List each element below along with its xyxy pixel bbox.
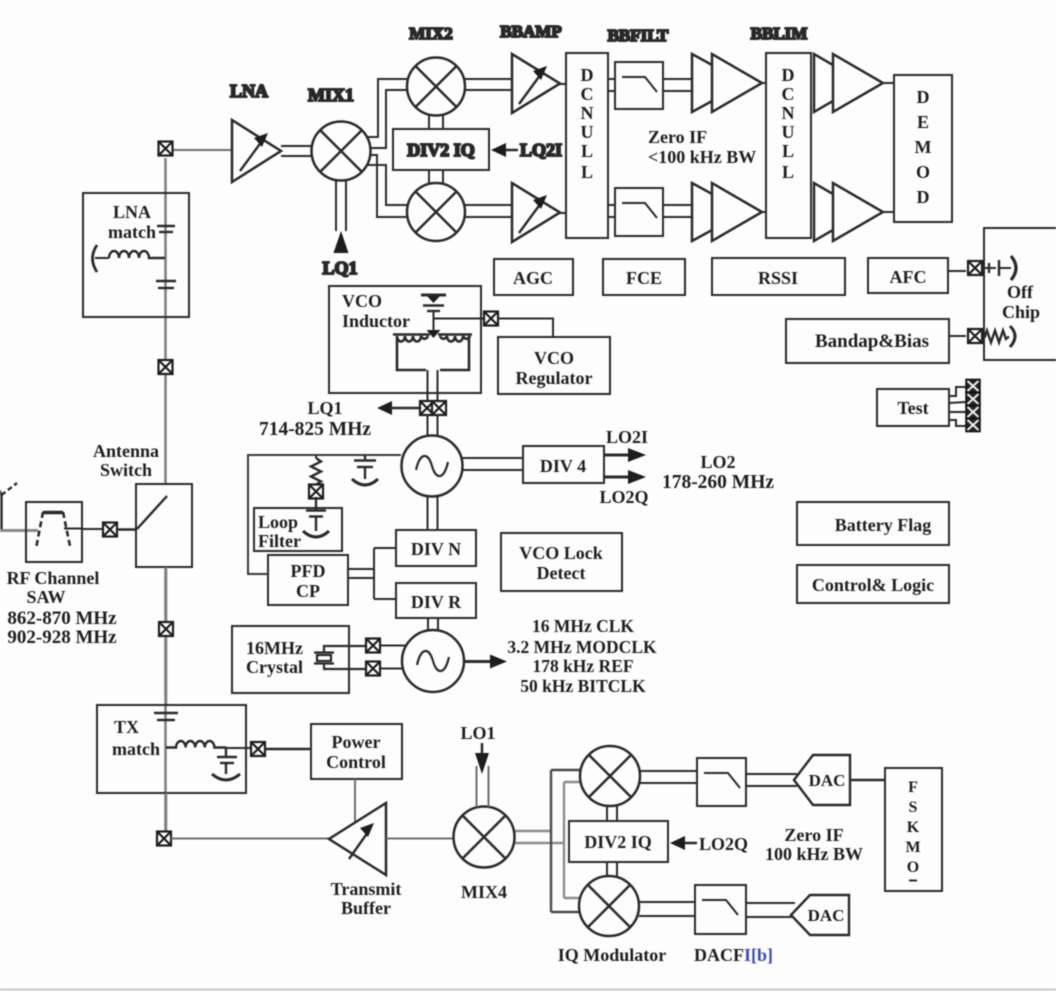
svg-text:match: match xyxy=(112,739,160,759)
wire SAW to pad xyxy=(82,528,103,530)
wire MIX2 to DIV2IQ xyxy=(429,115,443,129)
filter BBFILT I xyxy=(615,62,663,109)
svg-text:MIX4: MIX4 xyxy=(461,882,507,902)
pad LNA match bottom xyxy=(159,360,173,374)
svg-text:Test: Test xyxy=(897,398,928,418)
svg-text:S: S xyxy=(909,799,918,816)
svg-text:Off: Off xyxy=(1007,282,1034,302)
mixer IQmod Q xyxy=(579,876,639,936)
svg-text:K: K xyxy=(907,819,920,836)
wire DIV2IQ2 to IQmixerQ xyxy=(607,862,617,877)
pad Test3 xyxy=(966,405,980,418)
svg-text:Battery Flag: Battery Flag xyxy=(835,515,931,535)
svg-text:AGC: AGC xyxy=(513,268,553,288)
resistor off-chip (Bandgap) xyxy=(982,326,1015,347)
svg-text:O: O xyxy=(907,859,919,876)
block DIV 4 xyxy=(523,446,604,483)
switch lever xyxy=(137,496,167,529)
wire BBAMP to DCNULL xyxy=(560,83,566,85)
block VCO Regulator xyxy=(498,337,610,394)
svg-text:U: U xyxy=(782,122,795,142)
mixer MIX2 xyxy=(407,58,465,116)
wire into IQ mixer bottom xyxy=(551,898,581,912)
amplifier LNA xyxy=(232,120,281,182)
wire limiter to BBLIM I xyxy=(762,82,766,84)
label Transmit Buffer xyxy=(331,879,402,918)
svg-text:862-870 MHz: 862-870 MHz xyxy=(7,608,117,629)
wire MIX2 to BBAMP xyxy=(464,79,512,90)
filter BBFILT Q xyxy=(615,188,663,236)
block Antenna Switch xyxy=(136,484,192,567)
svg-text:LQ1: LQ1 xyxy=(307,398,342,418)
pad RX input xyxy=(159,142,173,156)
svg-text:N: N xyxy=(782,103,795,123)
block RF Channel SAW xyxy=(26,502,82,562)
block DIV R xyxy=(396,583,476,618)
svg-text:D: D xyxy=(581,65,594,85)
wire AFC to pad xyxy=(948,270,966,272)
svg-text:Switch: Switch xyxy=(100,460,152,480)
label LO2 178-260 MHz xyxy=(662,452,774,493)
arrow LQ1 out xyxy=(377,401,420,415)
wire buffer to MIX4 xyxy=(386,838,454,840)
svg-text:N: N xyxy=(581,103,594,123)
svg-text:BBAMP: BBAMP xyxy=(500,22,561,41)
pad AFC xyxy=(968,261,982,275)
svg-text:MIX2: MIX2 xyxy=(409,24,452,43)
svg-text:DIV2 IQ: DIV2 IQ xyxy=(584,832,652,852)
svg-text:<100 kHz BW: <100 kHz BW xyxy=(648,147,756,167)
wire limiter2 to DEMOD Q xyxy=(883,211,894,213)
svg-text:RF Channel: RF Channel xyxy=(7,568,100,588)
DAC Q xyxy=(791,895,849,935)
block Battery Flag xyxy=(797,502,949,545)
label Zero IF TX xyxy=(765,825,863,864)
capacitor TX match top xyxy=(154,713,178,720)
pad Bandgap xyxy=(968,329,982,343)
wire IQmixerQ to DACFIL Q xyxy=(639,902,695,916)
pad VCO B xyxy=(432,401,446,415)
block LNA match xyxy=(83,193,189,317)
svg-text:BBLIM: BBLIM xyxy=(751,24,808,43)
svg-text:LQ2I: LQ2I xyxy=(520,140,562,160)
svg-text:50 kHz BITCLK: 50 kHz BITCLK xyxy=(520,676,646,696)
wire Power Control to buffer xyxy=(354,779,356,822)
capacitor VCO top with arrow xyxy=(421,295,446,330)
mixer MIX1 xyxy=(312,122,371,181)
svg-text:L: L xyxy=(782,141,794,161)
svg-text:Transmit: Transmit xyxy=(331,879,402,899)
label Zero IF RX xyxy=(648,127,756,167)
svg-text:D: D xyxy=(917,87,930,107)
svg-text:16 MHz CLK: 16 MHz CLK xyxy=(532,616,634,636)
svg-text:Power: Power xyxy=(332,732,381,752)
pad loop filter xyxy=(309,485,323,499)
mixer IQmod I xyxy=(580,746,640,806)
inductor VCO differential coil xyxy=(393,335,472,371)
svg-text:L: L xyxy=(782,162,794,182)
svg-text:U: U xyxy=(581,122,594,142)
block BBLIM DCNULL xyxy=(766,53,811,238)
ground loop filter xyxy=(303,531,329,537)
pad Test2 xyxy=(966,392,980,405)
svg-text:IQ Modulator: IQ Modulator xyxy=(558,945,667,965)
wire BBFILT to limiter Q xyxy=(663,205,694,217)
wire pad to transmit buffer xyxy=(171,838,330,840)
svg-text:Regulator: Regulator xyxy=(516,368,593,388)
block RSSI xyxy=(712,258,845,295)
wire pads to xtal osc xyxy=(380,646,407,669)
svg-text:LO2: LO2 xyxy=(700,452,735,472)
wire pad to antenna switch xyxy=(117,528,137,531)
block Test xyxy=(877,389,949,426)
pad Test4 xyxy=(966,418,980,431)
capacitor LNA match bottom xyxy=(156,281,176,288)
pad xtal 2 xyxy=(366,662,380,676)
wire switch to TX pad xyxy=(165,567,168,705)
wire LO1 lines xyxy=(477,766,489,807)
wire into IQ mixer top xyxy=(551,770,582,782)
svg-text:Buffer: Buffer xyxy=(341,898,391,918)
wire filter to DAC I xyxy=(746,774,797,786)
block Control&Logic xyxy=(797,565,949,603)
capacitor LNA match top xyxy=(157,226,175,232)
wire DIV2IQ to MIX3 xyxy=(429,170,443,184)
pad VCO A xyxy=(420,401,434,415)
block DIV N xyxy=(396,530,476,566)
svg-text:L: L xyxy=(581,162,593,182)
svg-text:Zero IF: Zero IF xyxy=(648,127,707,147)
svg-text:F: F xyxy=(908,779,918,796)
capacitor loop filter internal xyxy=(306,497,326,531)
svg-text:Detect: Detect xyxy=(537,563,586,583)
arrow LQ2I into DIV2IQ xyxy=(491,143,518,157)
limiter amp I2 (double triangle) xyxy=(814,54,883,112)
pad mid TX line xyxy=(159,622,173,636)
svg-text:FCE: FCE xyxy=(626,268,662,288)
wire DCNULL to BBFILT Q xyxy=(608,205,615,217)
wire TX match to pad xyxy=(226,747,251,749)
svg-text:C: C xyxy=(581,84,594,104)
wire IQmixerI to DACFIL I xyxy=(640,771,697,783)
inductor LNA match xyxy=(109,251,165,258)
block DIV2 IQ TX xyxy=(569,821,668,862)
wire filter to DAC Q xyxy=(746,903,795,917)
pad TX match out xyxy=(251,742,265,756)
block DIV2 IQ xyxy=(393,129,489,170)
pad antenna port xyxy=(103,523,117,537)
limiter amp I (double triangle) xyxy=(692,54,762,112)
amplifier BBAMP I xyxy=(512,54,560,113)
svg-text:D: D xyxy=(782,65,795,85)
svg-text:DACFI[b]: DACFI[b] xyxy=(694,945,773,965)
svg-text:LNA: LNA xyxy=(230,81,268,101)
arrow xtal clocks out xyxy=(464,655,507,669)
svg-text:Crystal: Crystal xyxy=(246,657,303,677)
svg-text:Control: Control xyxy=(326,752,386,772)
svg-text:DAC: DAC xyxy=(808,906,845,925)
wire MIX1 LO input lines xyxy=(336,179,346,231)
svg-text:902-928 MHz: 902-928 MHz xyxy=(7,627,117,648)
svg-text:Filter: Filter xyxy=(258,531,301,551)
amplifier Transmit Buffer xyxy=(329,803,386,875)
wire TX line to bottom pad xyxy=(165,793,168,831)
svg-text:LO2I: LO2I xyxy=(606,427,648,447)
pad xtal 1 xyxy=(366,639,380,653)
capacitor LNA match series (left) xyxy=(93,245,110,272)
inductor TX match xyxy=(166,741,226,747)
svg-text:TX: TX xyxy=(114,717,139,737)
wire VCO top to regulator pad xyxy=(434,318,498,320)
oscillator VCO xyxy=(402,436,463,497)
block FCE xyxy=(603,259,685,295)
svg-text:LO1: LO1 xyxy=(460,723,495,743)
label RF Channel SAW freqs xyxy=(7,568,118,648)
svg-text:DIV R: DIV R xyxy=(411,592,462,612)
mixer MIX3 lower xyxy=(407,183,465,241)
limiter amp Q (double triangle) xyxy=(692,183,762,241)
filter DACFIL Q xyxy=(695,885,746,934)
wire IQ net vertical A xyxy=(550,770,552,912)
wire BBFILT to limiter I xyxy=(663,79,694,91)
wire Test pad 1 xyxy=(949,387,966,396)
svg-text:Control& Logic: Control& Logic xyxy=(812,575,934,595)
label LQ1 714-825 MHz xyxy=(259,398,371,440)
svg-text:Zero IF: Zero IF xyxy=(784,825,843,845)
wire Test pad 3 xyxy=(949,411,966,413)
wire VCO to DIVN net xyxy=(428,496,438,530)
arrow LO2I xyxy=(604,448,646,462)
limiter amp Q2 (double triangle) xyxy=(814,183,883,241)
svg-text:LNA: LNA xyxy=(113,202,151,222)
DAC I xyxy=(794,755,850,805)
capacitor TX match shunt xyxy=(217,748,237,774)
svg-text:PFD: PFD xyxy=(291,561,326,581)
wire DAC to FSKMOD xyxy=(850,779,885,782)
bandpass symbol SAW xyxy=(37,512,83,546)
wire MIX1 to lower mixer (Q path down) xyxy=(365,155,408,217)
svg-text:RSSI: RSSI xyxy=(758,268,798,288)
svg-text:16MHz: 16MHz xyxy=(246,638,303,658)
block DCNULL xyxy=(566,53,608,238)
block Bandap&Bias xyxy=(786,319,949,363)
wire RX pad to LNA xyxy=(173,149,232,151)
arrow into inductor center tap xyxy=(427,330,441,338)
wire pad to VCO regulator xyxy=(497,319,553,338)
svg-text:Loop: Loop xyxy=(258,512,298,532)
wire DIVR to xtal osc xyxy=(428,618,438,631)
page bottom edge xyxy=(0,989,1056,991)
wire Bandgap to pad xyxy=(949,335,966,337)
wire MIX4 to IQ mod net xyxy=(514,831,565,843)
filter DACFIL I xyxy=(697,758,746,806)
mixer MIX4 xyxy=(454,807,515,868)
wire limiter to BBLIM Q xyxy=(762,211,766,213)
wire BBAMP Q to DCNULL xyxy=(560,212,566,214)
block TX match xyxy=(97,705,246,793)
svg-text:DIV N: DIV N xyxy=(411,539,461,559)
amplifier BBAMP Q xyxy=(512,183,560,242)
wire DCNULL to BBFILT I xyxy=(608,79,615,91)
wire IQ net vertical B xyxy=(563,782,565,898)
block AFC xyxy=(868,258,948,293)
capacitor VCO shunt xyxy=(354,455,376,479)
svg-text:100 kHz BW: 100 kHz BW xyxy=(765,844,863,864)
svg-text:Antenna: Antenna xyxy=(93,441,159,461)
block Off Chip xyxy=(984,228,1056,360)
svg-text:SAW: SAW xyxy=(26,587,65,607)
svg-text:D: D xyxy=(917,187,930,207)
wire Test pad 4 xyxy=(949,420,966,426)
arrow LO2Q into DIV2IQ2 xyxy=(670,836,697,850)
label clock list xyxy=(507,616,657,696)
wire main RF vertical line xyxy=(164,158,167,831)
svg-text:match: match xyxy=(108,222,156,242)
svg-text:BBFILT: BBFILT xyxy=(608,26,669,45)
block 16MHz Crystal xyxy=(232,626,349,693)
svg-text:M: M xyxy=(905,839,920,856)
wire VCO to DIV4 xyxy=(462,458,523,470)
wire limiter2 to DEMOD I xyxy=(883,82,894,84)
svg-text:714-825 MHz: 714-825 MHz xyxy=(259,419,371,440)
resistor loop filter xyxy=(311,455,321,485)
ground TX match xyxy=(212,774,240,780)
wire LNA to MIX1 xyxy=(281,146,314,156)
svg-text:O: O xyxy=(916,162,930,182)
antenna xyxy=(0,478,17,530)
capacitor off-chip (AFC) xyxy=(982,256,1016,280)
svg-text:3.2 MHz MODCLK: 3.2 MHz MODCLK xyxy=(507,637,657,657)
ground VCO shunt xyxy=(352,479,378,485)
svg-text:DIV2 IQ: DIV2 IQ xyxy=(407,140,475,160)
svg-text:DAC: DAC xyxy=(809,771,846,790)
block PFD CP xyxy=(268,555,348,605)
svg-text:VCO: VCO xyxy=(342,291,382,311)
block Loop Filter xyxy=(254,508,342,551)
arrow LQ1 up into MIX1 xyxy=(334,231,349,253)
svg-text:CP: CP xyxy=(296,581,320,601)
block FSKMOD xyxy=(885,768,942,891)
pad Test1 xyxy=(966,379,980,392)
block VCO Inductor xyxy=(329,286,481,393)
wire MIX3 to BBAMP lower xyxy=(464,205,512,217)
svg-text:Inductor: Inductor xyxy=(342,311,410,331)
block AGC xyxy=(494,259,573,295)
oscillator crystal xyxy=(402,630,464,692)
wire antenna to SAW xyxy=(0,529,38,532)
arrow LO1 into MIX4 xyxy=(475,743,489,774)
wire VCO to loop filter net xyxy=(248,455,401,574)
wire Test pad 2 xyxy=(949,402,966,403)
pad TX bottom xyxy=(157,832,171,846)
block Power Control xyxy=(311,724,402,779)
block DEMOD xyxy=(894,75,952,222)
svg-text:Chip: Chip xyxy=(1002,302,1040,322)
block VCO Lock Detect xyxy=(501,533,622,591)
svg-text:Bandap&Bias: Bandap&Bias xyxy=(815,331,929,352)
wire pads to VCO osc xyxy=(428,414,438,437)
svg-text:VCO: VCO xyxy=(534,348,574,368)
wire PFD to dividers xyxy=(348,548,396,599)
svg-text:DIV 4: DIV 4 xyxy=(540,456,586,476)
pad VCO regulator wire xyxy=(484,312,498,326)
svg-text:C: C xyxy=(782,84,795,104)
svg-text:LQ1: LQ1 xyxy=(322,258,357,278)
wire IQmixerI to DIV2IQ2 xyxy=(607,805,617,821)
arrow LO2Q xyxy=(604,470,646,484)
svg-text:MIX1: MIX1 xyxy=(308,85,354,105)
wire MIX1 to MIX2 (I path up) xyxy=(365,79,408,148)
wire inductor to VCO pad xyxy=(428,370,438,403)
svg-text:AFC: AFC xyxy=(890,267,927,287)
svg-text:LO2Q: LO2Q xyxy=(699,834,748,854)
svg-text:178 kHz REF: 178 kHz REF xyxy=(532,656,633,676)
svg-text:LO2Q: LO2Q xyxy=(599,487,648,507)
svg-text:VCO Lock: VCO Lock xyxy=(519,543,603,563)
wire pad to Power Control xyxy=(265,748,311,751)
crystal symbol xyxy=(314,646,366,669)
svg-text:E: E xyxy=(917,112,929,132)
svg-text:M: M xyxy=(915,137,932,157)
svg-text:178-260 MHz: 178-260 MHz xyxy=(662,472,774,493)
svg-text:L: L xyxy=(581,141,593,161)
